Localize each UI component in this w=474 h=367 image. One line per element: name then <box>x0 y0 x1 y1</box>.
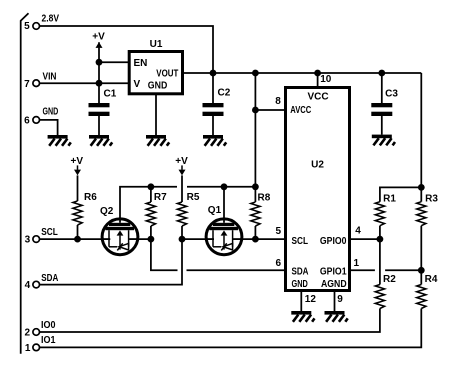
svg-text:12: 12 <box>305 294 317 305</box>
svg-text:EN: EN <box>134 58 148 69</box>
svg-text:AGND: AGND <box>321 279 347 290</box>
svg-text:9: 9 <box>337 294 343 305</box>
svg-text:2.8V: 2.8V <box>42 14 60 25</box>
svg-text:+V: +V <box>71 156 84 167</box>
svg-text:8: 8 <box>275 96 281 107</box>
svg-text:C2: C2 <box>218 88 231 99</box>
svg-text:3: 3 <box>25 235 31 246</box>
svg-text:R2: R2 <box>383 274 396 285</box>
svg-text:C1: C1 <box>104 89 117 100</box>
svg-text:1: 1 <box>354 258 360 269</box>
svg-text:6: 6 <box>24 116 30 127</box>
svg-text:5: 5 <box>24 21 30 32</box>
svg-text:GPIO0: GPIO0 <box>320 236 347 247</box>
svg-text:1: 1 <box>25 343 31 354</box>
svg-text:6: 6 <box>275 258 281 269</box>
svg-text:GND: GND <box>292 279 308 290</box>
svg-text:R1: R1 <box>383 193 396 204</box>
svg-text:+V: +V <box>92 32 105 43</box>
svg-text:5: 5 <box>275 226 281 237</box>
svg-text:2: 2 <box>25 328 31 339</box>
svg-text:AVCC: AVCC <box>290 105 311 116</box>
svg-text:4: 4 <box>355 225 361 236</box>
svg-text:R3: R3 <box>425 193 438 204</box>
svg-text:GPIO1: GPIO1 <box>320 266 347 277</box>
svg-text:IO0: IO0 <box>41 320 56 331</box>
svg-text:VOUT: VOUT <box>156 69 178 80</box>
svg-text:+V: +V <box>175 156 188 167</box>
svg-text:U1: U1 <box>150 39 163 50</box>
svg-text:R5: R5 <box>187 192 200 203</box>
svg-text:SCL: SCL <box>41 227 58 238</box>
svg-text:Q2: Q2 <box>100 206 114 217</box>
svg-text:R6: R6 <box>84 192 97 203</box>
svg-text:7: 7 <box>24 79 30 90</box>
svg-text:SCL: SCL <box>292 236 309 247</box>
svg-text:U2: U2 <box>311 160 324 171</box>
svg-text:R7: R7 <box>154 192 167 203</box>
svg-text:R4: R4 <box>425 274 438 285</box>
svg-text:C3: C3 <box>385 89 398 100</box>
svg-text:Q1: Q1 <box>208 205 222 216</box>
svg-text:VCC: VCC <box>307 91 328 102</box>
svg-text:VIN: VIN <box>43 71 57 82</box>
svg-text:GND: GND <box>43 107 59 118</box>
svg-text:4: 4 <box>25 280 31 291</box>
svg-text:SDA: SDA <box>41 273 58 284</box>
svg-text:GND: GND <box>148 80 168 91</box>
svg-text:10: 10 <box>320 74 332 85</box>
svg-text:V: V <box>134 79 141 90</box>
svg-text:IO1: IO1 <box>41 335 56 346</box>
svg-text:R8: R8 <box>258 193 271 204</box>
svg-text:SDA: SDA <box>292 266 309 277</box>
